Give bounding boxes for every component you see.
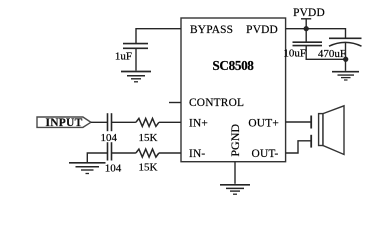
resistor R2 15K <box>136 149 159 157</box>
pin IN- <box>189 148 205 160</box>
wire BYPASS to C1 <box>136 29 181 44</box>
wire C3 bottom <box>345 43 347 60</box>
R1 value 15K <box>139 132 158 144</box>
capacitor C3 470uF <box>329 38 362 46</box>
wire ground to C5 <box>87 153 107 162</box>
ground (below C1) <box>121 72 151 82</box>
wire C5 to R2 <box>112 152 136 154</box>
pin OUT+ <box>248 118 279 130</box>
wire OUT+ to speaker <box>286 121 311 123</box>
svg-text:15K: 15K <box>139 162 158 174</box>
wire OUT- to speaker <box>286 141 311 153</box>
pin CONTROL <box>189 97 244 109</box>
svg-text:15K: 15K <box>139 132 158 144</box>
wire R2 to IN- <box>159 152 181 154</box>
wire C1 to ground <box>135 48 137 70</box>
svg-text:SC8508: SC8508 <box>212 58 254 73</box>
svg-text:OUT-: OUT- <box>252 148 279 160</box>
svg-text:470uF: 470uF <box>318 48 346 60</box>
svg-text:1uF: 1uF <box>115 51 132 63</box>
svg-text:IN+: IN+ <box>189 118 208 130</box>
svg-text:OUT+: OUT+ <box>248 118 279 130</box>
C5 value 104 <box>105 162 122 174</box>
ground (PGND) <box>220 185 250 194</box>
U1 label SC8508 <box>212 58 254 73</box>
svg-text:CONTROL: CONTROL <box>189 97 244 109</box>
speaker LS1 <box>319 106 344 155</box>
wire C4 to R1 <box>112 121 136 123</box>
pin BYPASS <box>190 24 233 36</box>
wire PGND to ground <box>234 162 236 184</box>
pin OUT- <box>252 148 279 160</box>
capacitor C2 10uF <box>293 42 323 45</box>
svg-text:PVDD: PVDD <box>246 24 278 36</box>
svg-text:PGND: PGND <box>228 124 242 157</box>
wire R1 to IN+ <box>159 121 181 123</box>
wire C2 bottom to node <box>306 46 345 60</box>
node PVDD power symbol <box>293 7 325 29</box>
wire CONTROL stub <box>169 102 181 104</box>
C2 value 10uF <box>283 48 306 60</box>
speaker terminal - <box>310 135 312 148</box>
op-amp U1 SC8508 body <box>181 18 286 162</box>
R2 value 15K <box>139 162 158 174</box>
C3 value 470uF <box>318 48 346 60</box>
wire junction to C2 <box>305 29 307 43</box>
svg-text:10uF: 10uF <box>283 48 306 60</box>
svg-text:104: 104 <box>105 162 122 174</box>
svg-text:PVDD: PVDD <box>293 7 325 19</box>
wire INPUT to C4 <box>91 121 108 123</box>
wire PVDD rail <box>286 29 346 39</box>
resistor R1 15K <box>136 118 159 126</box>
capacitor C4 104 <box>108 113 112 131</box>
node INPUT tag <box>37 117 91 129</box>
ground (below C3) <box>332 72 359 80</box>
C1 value 1uF <box>115 51 132 63</box>
wire to ground <box>345 59 347 71</box>
svg-text:BYPASS: BYPASS <box>190 24 233 36</box>
svg-text:IN-: IN- <box>189 148 205 160</box>
svg-text:104: 104 <box>100 132 117 144</box>
pin PVDD <box>246 24 278 36</box>
node junction dot at C3 bottom <box>343 57 348 62</box>
capacitor C5 104 <box>108 142 112 160</box>
pin IN+ <box>189 118 208 130</box>
node junction dot at PVDD <box>304 26 309 31</box>
ground (input side) <box>69 163 106 174</box>
speaker terminal + <box>310 116 312 129</box>
svg-text:INPUT: INPUT <box>45 117 82 129</box>
pin PGND <box>228 124 242 157</box>
capacitor C1 1uF <box>123 44 148 49</box>
C4 value 104 <box>100 132 117 144</box>
